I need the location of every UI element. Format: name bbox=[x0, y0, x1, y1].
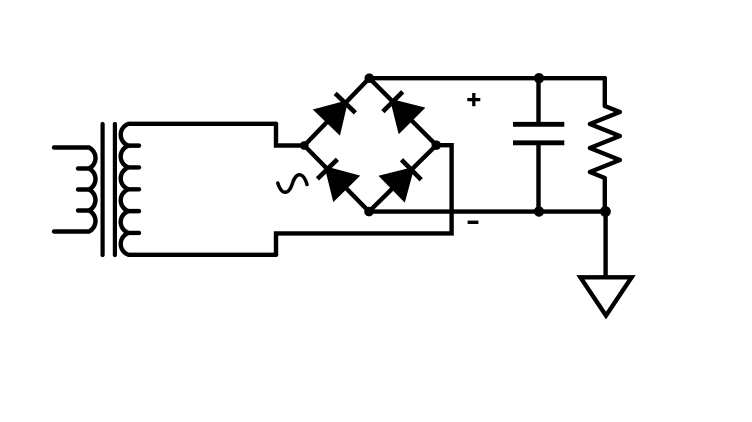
wire plus rail bbox=[369, 76, 605, 80]
diode bridge edge left-bottom bbox=[304, 146, 369, 212]
AC source squiggle bbox=[278, 175, 307, 192]
transformer primary winding bbox=[54, 148, 96, 232]
transformer secondary winding bbox=[121, 124, 276, 255]
capacitor C1 bottom lead bbox=[536, 143, 540, 212]
transformer core bbox=[100, 124, 104, 255]
junction dot minus rail at capacitor bbox=[534, 206, 544, 216]
diode bridge edge bottom-right bbox=[369, 145, 436, 211]
junction dot minus rail at resistor bbox=[600, 206, 611, 217]
label minus bbox=[468, 221, 479, 224]
capacitor C1 plates bbox=[513, 122, 564, 127]
junction dot plus rail at capacitor bbox=[534, 73, 544, 83]
diode D4 lower-right (minus node to right node) bbox=[383, 170, 412, 199]
label plus bbox=[467, 93, 480, 106]
wire ground stem bbox=[603, 212, 607, 278]
diode D3 lower-left (minus node to left node) bbox=[327, 169, 356, 198]
wire secondary top lead step down to bridge left node bbox=[276, 124, 304, 146]
diode bridge edge left-top bbox=[304, 78, 369, 145]
resistor R1 bbox=[590, 78, 620, 211]
wire secondary bottom lead step up and return to bridge right node bbox=[276, 145, 452, 255]
junction dot bridge bottom minus node bbox=[364, 207, 374, 217]
capacitor C1 top lead bbox=[536, 78, 540, 124]
diode bridge edge top-right bbox=[369, 78, 436, 145]
diode D2 upper-right (right node to plus node) bbox=[393, 102, 421, 130]
ground bbox=[580, 277, 631, 315]
junction dot bridge right node bbox=[432, 140, 442, 150]
wire minus rail bbox=[369, 209, 605, 213]
junction dot bridge left node bbox=[300, 141, 309, 150]
diode D1 upper-left (left node to plus node) bbox=[317, 103, 345, 131]
junction dot bridge top plus node bbox=[365, 73, 375, 83]
